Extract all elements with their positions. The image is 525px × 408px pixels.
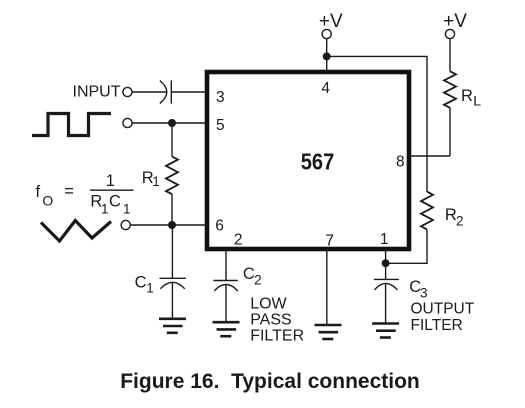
svg-text:1: 1 xyxy=(146,281,154,296)
svg-text:1: 1 xyxy=(380,231,389,248)
svg-text:2: 2 xyxy=(456,214,464,229)
svg-text:FILTER: FILTER xyxy=(250,328,304,345)
svg-text:FILTER: FILTER xyxy=(411,317,463,334)
svg-text:6: 6 xyxy=(215,218,224,235)
svg-text:Figure 16. Typical connection: Figure 16. Typical connection xyxy=(120,370,420,393)
svg-text:=: = xyxy=(64,183,74,201)
svg-text:8: 8 xyxy=(396,153,405,170)
svg-text:C: C xyxy=(109,193,121,211)
svg-text:+V: +V xyxy=(319,11,343,32)
svg-text:f: f xyxy=(36,183,41,201)
svg-text:1: 1 xyxy=(106,172,115,190)
svg-text:PASS: PASS xyxy=(250,312,292,329)
svg-text:4: 4 xyxy=(321,80,330,97)
svg-text:2: 2 xyxy=(254,273,262,288)
svg-text:3: 3 xyxy=(420,286,428,301)
svg-text:5: 5 xyxy=(216,117,225,134)
svg-text:1: 1 xyxy=(123,202,131,217)
svg-text:OUTPUT: OUTPUT xyxy=(411,301,475,318)
svg-text:+V: +V xyxy=(443,11,467,32)
svg-text:O: O xyxy=(42,193,53,209)
svg-text:INPUT: INPUT xyxy=(73,84,121,101)
svg-text:L: L xyxy=(473,93,481,109)
svg-text:LOW: LOW xyxy=(250,296,287,313)
svg-text:C: C xyxy=(135,274,147,292)
svg-text:3: 3 xyxy=(216,89,225,106)
svg-text:2: 2 xyxy=(234,231,243,248)
svg-text:1: 1 xyxy=(101,202,109,217)
svg-text:7: 7 xyxy=(325,232,334,249)
svg-text:C: C xyxy=(243,265,255,283)
svg-text:R: R xyxy=(461,87,473,105)
svg-text:567: 567 xyxy=(301,148,335,174)
svg-text:1: 1 xyxy=(152,174,160,189)
